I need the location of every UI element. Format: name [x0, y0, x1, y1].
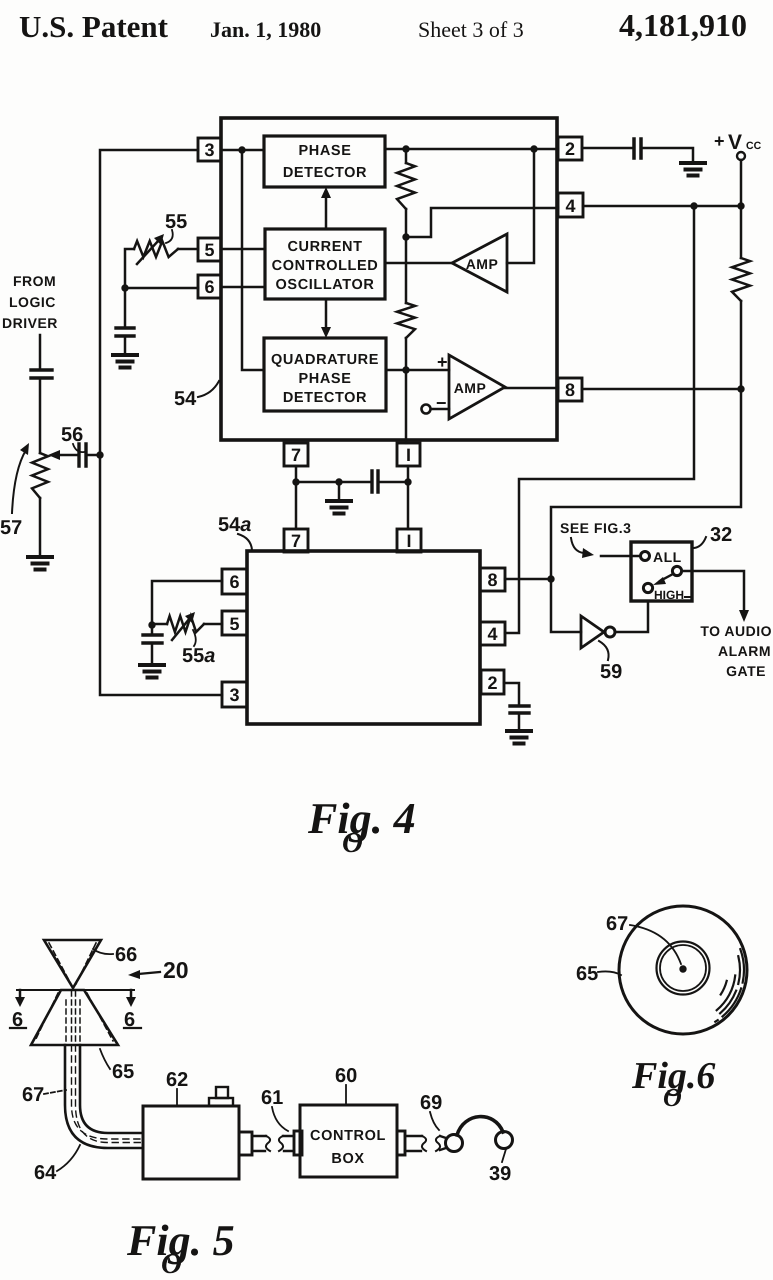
svg-text:SEE FIG.3: SEE FIG.3	[560, 520, 631, 536]
wire pin7 down	[295, 466, 298, 482]
svg-text:O: O	[342, 827, 363, 859]
disc outer circle 65	[619, 906, 747, 1034]
quadrature phase detector block	[264, 338, 386, 411]
svg-text:54: 54	[174, 388, 197, 410]
svg-text:QUADRATURE: QUADRATURE	[271, 352, 379, 368]
svg-text:V: V	[728, 131, 742, 154]
wire Vcc down	[740, 160, 743, 206]
svg-text:6: 6	[204, 277, 214, 297]
earpiece 2	[496, 1132, 513, 1149]
wire cap56 to bus	[86, 454, 100, 457]
ground (C1)	[681, 163, 705, 176]
capacitor C55	[116, 328, 134, 336]
wire cap56 to wiper arrow	[56, 454, 79, 457]
wire amp2 out to pin8	[505, 387, 558, 390]
control box left connector	[294, 1131, 302, 1155]
cone body 65 (trapezoid)	[31, 990, 118, 1045]
left section arrow	[19, 990, 22, 1000]
svg-text:39: 39	[489, 1163, 511, 1185]
svg-text:5: 5	[204, 240, 214, 260]
leader 59	[599, 641, 609, 660]
node quad output	[402, 366, 409, 373]
wire to R1	[405, 149, 408, 163]
right section arrow	[130, 990, 133, 1000]
wire cap to ground	[151, 643, 154, 665]
tube segment 4	[440, 1136, 446, 1150]
phase detector block	[264, 136, 385, 187]
inverter bubble	[605, 627, 615, 637]
leader 54	[198, 381, 219, 397]
svg-text:20: 20	[163, 957, 189, 983]
tube inner wall	[80, 1045, 143, 1133]
svg-text:O: O	[161, 1248, 182, 1280]
svg-text:HIGH: HIGH	[654, 588, 684, 602]
ground (C55a)	[140, 665, 164, 678]
wire node down to lower pin8	[551, 389, 741, 579]
contact common	[672, 566, 681, 575]
tube outer wall	[65, 1045, 143, 1148]
svg-text:60: 60	[335, 1065, 357, 1087]
wire quad output to amp2 plus input	[386, 369, 449, 372]
svg-text:64: 64	[34, 1162, 57, 1184]
box 62	[143, 1106, 239, 1179]
svg-text:8: 8	[487, 570, 497, 590]
node ground tap	[335, 478, 342, 485]
wire pin1 down	[407, 466, 410, 482]
pin 8 box (lower IC right)	[480, 568, 505, 591]
hub inner ring	[660, 945, 706, 991]
arrow CCO to quadrature detector	[325, 299, 328, 330]
svg-text:32: 32	[710, 524, 732, 546]
wire pin6 lower left	[152, 581, 222, 625]
capacitor C2g	[510, 706, 529, 713]
wire R55 to pin5	[178, 248, 198, 251]
arrow 20	[138, 972, 160, 974]
wire node to inverter	[551, 579, 581, 632]
wire node1 to lower pin1	[407, 482, 410, 529]
resistor R3	[732, 258, 750, 301]
node pin7	[292, 478, 299, 485]
svg-text:I: I	[406, 531, 411, 551]
pin 4 box (top IC right)	[558, 193, 583, 217]
svg-text:2: 2	[487, 673, 497, 693]
node cap56 tap	[96, 451, 103, 458]
wire pot to ground	[39, 498, 42, 557]
node at pin3 wire	[238, 146, 245, 153]
hub outer ring	[657, 942, 710, 995]
leader 55	[166, 230, 173, 243]
leader 64	[57, 1145, 80, 1171]
header: date	[210, 17, 321, 43]
ground (pot 57)	[28, 557, 52, 570]
svg-text:5: 5	[229, 614, 239, 634]
arrow through R55a	[172, 618, 190, 640]
wire node to cap	[151, 625, 154, 635]
svg-text:7: 7	[291, 445, 301, 465]
pin 6 box (top IC left)	[198, 275, 221, 298]
wire pin4 jog to mid node	[406, 208, 558, 237]
svg-text:DETECTOR: DETECTOR	[283, 165, 367, 181]
svg-text:AMP: AMP	[466, 256, 499, 272]
svg-text:I: I	[406, 445, 411, 465]
break squiggle 2	[279, 1136, 283, 1151]
ground (C55)	[113, 355, 137, 368]
IC block U54a outer box	[247, 551, 480, 724]
wire cap to pot	[39, 378, 42, 453]
ground (C71)	[327, 501, 351, 514]
svg-text:57: 57	[0, 517, 22, 539]
node pin4 branch	[690, 202, 697, 209]
pin 7 box (lower IC top)	[284, 529, 308, 552]
wire bubble to switch	[615, 602, 648, 632]
svg-text:FROM: FROM	[13, 273, 56, 289]
svg-text:65: 65	[576, 963, 598, 985]
pin 1 box (top IC bottom)	[397, 443, 420, 466]
shading arc 2	[716, 956, 740, 1017]
wire node down to cap	[124, 288, 127, 328]
svg-text:4: 4	[565, 196, 575, 216]
wire pin6 to CCO	[221, 286, 265, 289]
wire pin3 to phase detector	[221, 149, 264, 152]
svg-text:+: +	[437, 352, 448, 372]
capacitor C1	[634, 139, 641, 158]
wire R3 to pin8 node	[740, 301, 743, 389]
nipple pedestal	[209, 1098, 233, 1106]
svg-text:54a: 54a	[218, 514, 251, 536]
svg-text:69: 69	[420, 1092, 442, 1114]
capacitor C55a	[143, 635, 162, 643]
node 55a	[148, 621, 155, 628]
node amp tap	[530, 145, 537, 152]
svg-text:AMP: AMP	[454, 380, 487, 396]
svg-text:56: 56	[61, 424, 83, 446]
break squiggle 4	[436, 1136, 440, 1151]
shading arc 3	[717, 976, 736, 1011]
wire pin2 to cap C1	[582, 147, 634, 150]
center dot	[679, 965, 686, 972]
inverter 59	[581, 616, 604, 648]
break squiggle 3	[422, 1136, 426, 1151]
wiper arrowhead	[48, 450, 60, 460]
wire R55a to pin5	[204, 623, 222, 626]
switch arm	[660, 574, 673, 581]
box62 right connector	[239, 1132, 252, 1155]
switch box 32	[631, 542, 692, 601]
current controlled oscillator block	[265, 229, 385, 299]
wire Vcc to R3	[740, 206, 743, 258]
svg-text:TO AUDIO: TO AUDIO	[700, 623, 772, 639]
svg-text:3: 3	[229, 685, 239, 705]
variable resistor R55a	[167, 616, 204, 632]
curved arrow 57	[12, 450, 26, 513]
svg-text:4: 4	[487, 624, 497, 644]
leader 56	[73, 444, 84, 452]
wire pin8 to node	[582, 388, 741, 391]
pin 6 box (lower IC left)	[222, 569, 247, 594]
variable resistor R55	[134, 241, 178, 257]
section line 6-6	[17, 989, 134, 991]
tube segment 3	[405, 1136, 422, 1151]
svg-text:6: 6	[229, 572, 239, 592]
svg-text:55a: 55a	[182, 645, 215, 667]
svg-text:ALARM: ALARM	[718, 643, 771, 659]
svg-text:PHASE: PHASE	[299, 143, 352, 159]
leader 61	[272, 1107, 288, 1131]
svg-text:62: 62	[166, 1069, 188, 1091]
wire R2 to quad out node	[405, 338, 408, 370]
svg-text:2: 2	[565, 139, 575, 159]
shading arc 1	[715, 949, 744, 1022]
wire amp1 output to CCO	[385, 262, 452, 265]
leader 39	[502, 1149, 506, 1162]
resistor R2	[397, 303, 415, 338]
node lower pin8	[547, 575, 554, 582]
svg-text:67: 67	[22, 1084, 44, 1106]
open terminal circle	[422, 405, 431, 414]
leader 65	[100, 1049, 110, 1069]
arrow SEE FIG.3	[571, 538, 584, 553]
wire cap to ground	[124, 336, 127, 355]
wire across with cap	[296, 481, 408, 484]
wire R55 left leg	[125, 249, 134, 288]
svg-text:+: +	[714, 131, 725, 151]
leader 55a	[193, 630, 196, 646]
Vcc terminal circle	[737, 152, 745, 160]
pin 5 box (lower IC left)	[222, 611, 247, 635]
svg-text:DETECTOR: DETECTOR	[283, 390, 367, 406]
svg-text:67: 67	[606, 913, 628, 935]
tube dashed center	[72, 1045, 144, 1143]
pin 5 box (top IC left)	[198, 238, 221, 261]
pin 3 box (top IC left)	[198, 138, 221, 161]
resistor R1	[397, 163, 415, 209]
wire cap C1 to ground	[641, 148, 693, 163]
pin 7 box (top IC bottom)	[284, 443, 308, 466]
wire node down to quadrature input	[242, 150, 264, 370]
node 55 leg	[121, 284, 128, 291]
svg-text:ALL: ALL	[653, 549, 682, 565]
op-amp U-A (left pointing)	[452, 234, 507, 292]
output arrowhead	[739, 610, 749, 622]
wire pin4 branch down and to lower pin4	[505, 206, 694, 633]
node pin8	[737, 385, 744, 392]
leader 60	[345, 1085, 347, 1104]
pin 3 box (lower IC left)	[222, 682, 247, 707]
pin 2 box (lower IC right)	[481, 670, 504, 694]
earpiece 1	[446, 1135, 463, 1152]
svg-text:CURRENT: CURRENT	[287, 239, 362, 255]
dashed bore lines	[35, 991, 113, 1045]
wire node to pin6	[125, 287, 198, 290]
header: U.S. Patent	[19, 9, 168, 45]
wire common to output arrow	[682, 571, 744, 612]
wire tap to ground	[338, 482, 341, 501]
arm arrowhead	[653, 577, 666, 585]
svg-text:CONTROLLED: CONTROLLED	[272, 258, 379, 274]
svg-text:DRIVER: DRIVER	[2, 315, 58, 331]
svg-text:OSCILLATOR: OSCILLATOR	[276, 277, 375, 293]
svg-text:O: O	[663, 1083, 682, 1112]
wire pin4 to Vcc node	[583, 205, 741, 208]
IC block U54 outer box	[221, 118, 557, 440]
wire node7 to lower pin7	[295, 482, 298, 529]
svg-text:8: 8	[565, 380, 575, 400]
svg-text:61: 61	[261, 1087, 283, 1109]
leader 67 fig6	[630, 925, 681, 964]
leader 66	[93, 949, 113, 954]
svg-text:CC: CC	[746, 140, 762, 152]
header: sheet	[418, 17, 524, 43]
capacitor C71	[372, 471, 378, 492]
svg-text:BOX: BOX	[331, 1151, 364, 1167]
wire to ALL contact	[601, 555, 640, 558]
contact ALL	[641, 552, 650, 561]
svg-text:55: 55	[165, 211, 187, 233]
dashed inner lines of 66	[49, 943, 96, 984]
arrow through R55	[137, 240, 159, 264]
break squiggle	[266, 1136, 270, 1151]
capacitor C56	[79, 444, 86, 466]
tube segment 2	[283, 1136, 294, 1151]
svg-text:GATE: GATE	[726, 663, 766, 679]
wire pin2 lower to cap	[504, 683, 519, 706]
header: patent number	[619, 7, 747, 44]
op-amp U-B (right pointing)	[449, 355, 505, 419]
control box right connector	[397, 1131, 405, 1155]
wire from driver down	[39, 335, 42, 370]
arrow CCO to phase detector	[325, 196, 328, 229]
shading arc 4	[721, 981, 727, 995]
pin 1 box (lower IC top)	[397, 529, 421, 552]
potentiometer R57	[32, 453, 48, 498]
headband arc	[457, 1117, 503, 1135]
wire phase detector out to pin2	[385, 148, 558, 151]
leader 62	[176, 1089, 178, 1105]
svg-text:7: 7	[291, 531, 301, 551]
leader 65 fig6	[598, 971, 621, 975]
svg-text:65: 65	[112, 1061, 134, 1083]
svg-text:CONTROL: CONTROL	[310, 1128, 386, 1144]
tube segment with break	[252, 1136, 266, 1151]
wire terminal to amp2 minus	[431, 408, 449, 411]
wire cap to ground	[518, 713, 521, 731]
wire node to R55a	[152, 623, 167, 626]
leader 32	[694, 537, 706, 548]
cone top 66 (inverted triangle)	[44, 940, 101, 988]
pin 4 box (lower IC right)	[480, 622, 505, 645]
wire R1 to mid node	[405, 209, 408, 237]
dashed leader 67	[44, 1090, 66, 1094]
leader 54a	[238, 534, 252, 550]
wire lower pin8	[505, 578, 551, 581]
svg-text:PHASE: PHASE	[299, 371, 352, 387]
bus wire pin3(top) to pin3(bottom) long vertical	[100, 150, 222, 695]
svg-text:LOGIC: LOGIC	[9, 294, 56, 310]
node mid resistors	[402, 233, 409, 240]
wire amp1 input from pin2 node	[507, 149, 534, 263]
pin 2 box (top IC right)	[558, 137, 582, 160]
wire mid node to R2	[405, 237, 408, 303]
svg-text:3: 3	[204, 140, 214, 160]
nipple stub	[216, 1087, 228, 1098]
leader 69	[430, 1112, 439, 1130]
capacitor C-in	[31, 370, 52, 378]
contact HIGH	[643, 583, 652, 592]
wire node down to pin1	[405, 370, 408, 443]
svg-text:59: 59	[600, 661, 622, 683]
node R1 top	[402, 145, 409, 152]
control box 60	[300, 1105, 397, 1177]
wire pin5 to CCO	[221, 248, 265, 251]
ground (C2g)	[507, 731, 531, 744]
svg-text:66: 66	[115, 944, 137, 966]
pin 8 box (top IC right)	[558, 378, 582, 401]
node pin1	[404, 478, 411, 485]
node Vcc pin4	[737, 202, 744, 209]
